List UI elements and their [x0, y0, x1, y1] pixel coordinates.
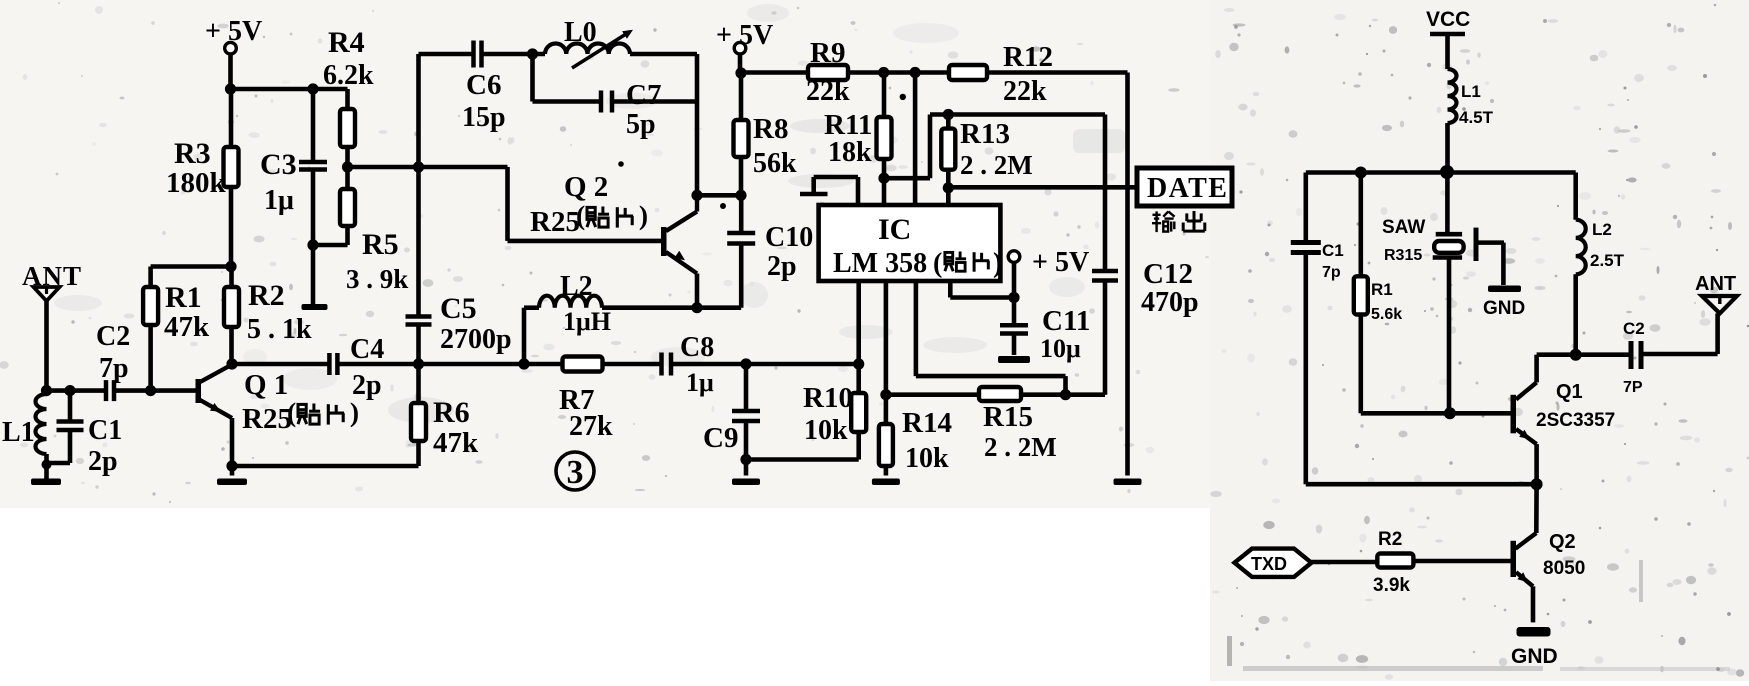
- svg-text:6.2k: 6.2k: [323, 60, 374, 91]
- svg-text:C4: C4: [350, 334, 384, 365]
- svg-text:10μ: 10μ: [1040, 334, 1081, 363]
- svg-text:C6: C6: [466, 69, 501, 101]
- svg-text:3.9k: 3.9k: [1373, 575, 1410, 596]
- svg-text:C1: C1: [1322, 241, 1344, 260]
- svg-text:LM 358: LM 358: [833, 248, 927, 279]
- svg-text:R14: R14: [902, 407, 952, 439]
- svg-text:C8: C8: [680, 332, 714, 363]
- svg-text:2p: 2p: [767, 251, 797, 282]
- svg-text:R10: R10: [803, 382, 853, 414]
- svg-text:7p: 7p: [99, 353, 129, 384]
- svg-text:2p: 2p: [88, 446, 118, 477]
- svg-text:22k: 22k: [806, 76, 850, 107]
- svg-text:TXD: TXD: [1251, 554, 1287, 574]
- svg-text:+ 5V: + 5V: [205, 16, 262, 47]
- svg-text:C9: C9: [703, 422, 738, 454]
- svg-text:+ 5V: + 5V: [716, 20, 773, 51]
- svg-text:1μ: 1μ: [264, 185, 294, 216]
- svg-text:L2: L2: [560, 271, 593, 302]
- svg-text:2p: 2p: [352, 370, 382, 401]
- svg-text:C7: C7: [626, 79, 661, 111]
- svg-text:R15: R15: [983, 401, 1033, 433]
- svg-text:2 . 2M: 2 . 2M: [984, 432, 1057, 462]
- svg-text:10k: 10k: [905, 443, 949, 474]
- svg-text:3 . 9k: 3 . 9k: [346, 264, 408, 294]
- svg-text:Q2: Q2: [1549, 531, 1576, 553]
- svg-text:L1: L1: [1461, 82, 1481, 101]
- svg-text:Q 2: Q 2: [564, 171, 608, 203]
- svg-text:R6: R6: [433, 396, 470, 429]
- svg-text:R9: R9: [810, 37, 845, 69]
- svg-text:C11: C11: [1042, 305, 1090, 337]
- svg-text:5.6k: 5.6k: [1371, 306, 1402, 323]
- svg-text:L1: L1: [2, 417, 35, 448]
- svg-text:47k: 47k: [164, 311, 210, 343]
- svg-text:2700p: 2700p: [440, 324, 512, 355]
- svg-text:R25: R25: [530, 206, 580, 238]
- svg-text:C3: C3: [260, 148, 297, 181]
- svg-text:2SC3357: 2SC3357: [1536, 410, 1615, 431]
- svg-text:2.5T: 2.5T: [1590, 251, 1625, 270]
- svg-text:R2: R2: [248, 279, 285, 312]
- svg-text:ANT: ANT: [1695, 273, 1736, 295]
- svg-text:): ): [350, 397, 359, 428]
- svg-text:): ): [639, 200, 648, 231]
- svg-text:22k: 22k: [1003, 76, 1047, 107]
- svg-text:5 . 1k: 5 . 1k: [247, 314, 312, 345]
- svg-text:1μH: 1μH: [563, 307, 611, 336]
- svg-text:GND: GND: [1483, 298, 1525, 319]
- svg-text:R315: R315: [1384, 247, 1422, 264]
- svg-text:Q1: Q1: [1556, 381, 1583, 403]
- svg-text:C12: C12: [1143, 258, 1193, 290]
- svg-text:R1: R1: [165, 281, 202, 314]
- svg-text:7P: 7P: [1623, 379, 1643, 396]
- svg-text:R5: R5: [362, 228, 399, 261]
- svg-text:R13: R13: [960, 118, 1010, 150]
- svg-text:VCC: VCC: [1426, 8, 1470, 31]
- svg-text:R8: R8: [753, 113, 788, 145]
- svg-text:8050: 8050: [1543, 558, 1585, 579]
- svg-text:Q 1: Q 1: [244, 369, 288, 401]
- svg-text:470p: 470p: [1141, 287, 1199, 318]
- svg-text:(: (: [576, 200, 585, 231]
- svg-text:R2: R2: [1378, 529, 1402, 550]
- svg-text:L2: L2: [1592, 220, 1612, 239]
- svg-text:C2: C2: [1623, 319, 1645, 338]
- svg-text:C2: C2: [96, 321, 130, 352]
- svg-text:15p: 15p: [462, 102, 506, 133]
- svg-text:47k: 47k: [433, 427, 479, 459]
- svg-text:L0: L0: [564, 17, 597, 48]
- svg-text:180k: 180k: [166, 167, 227, 199]
- svg-text:(: (: [933, 248, 942, 279]
- svg-text:7p: 7p: [1322, 264, 1341, 281]
- svg-text:SAW: SAW: [1382, 217, 1425, 238]
- svg-text:5p: 5p: [626, 109, 656, 140]
- svg-text:DATE: DATE: [1147, 173, 1228, 204]
- svg-text:R3: R3: [174, 137, 211, 170]
- svg-text:C5: C5: [440, 292, 477, 325]
- svg-text:3: 3: [567, 454, 584, 491]
- svg-text:R4: R4: [328, 26, 365, 59]
- svg-text:R12: R12: [1003, 41, 1053, 73]
- svg-text:18k: 18k: [828, 137, 872, 168]
- svg-text:): ): [993, 248, 1002, 279]
- svg-text:10k: 10k: [804, 415, 848, 446]
- svg-text:C10: C10: [765, 222, 813, 253]
- svg-text:2 . 2M: 2 . 2M: [960, 150, 1033, 180]
- svg-text:56k: 56k: [753, 148, 797, 179]
- svg-text:1μ: 1μ: [686, 368, 714, 397]
- svg-text:+ 5V: + 5V: [1032, 247, 1089, 278]
- svg-text:IC: IC: [878, 213, 911, 246]
- svg-text:R25: R25: [242, 403, 292, 435]
- svg-text:GND: GND: [1511, 645, 1558, 668]
- svg-text:C1: C1: [88, 415, 122, 446]
- svg-text:4.5T: 4.5T: [1459, 108, 1494, 127]
- svg-text:27k: 27k: [569, 411, 613, 442]
- svg-text:R1: R1: [1371, 280, 1393, 299]
